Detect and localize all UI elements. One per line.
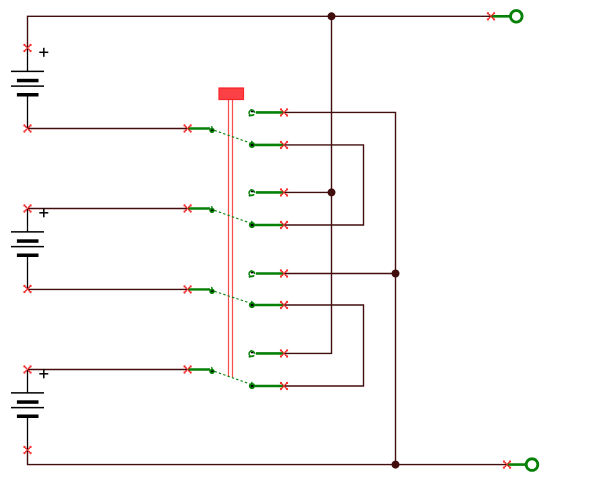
battery V3 pin marker minus terminal — [23, 446, 31, 454]
switch SW1 pole4 pin marker common — [183, 365, 191, 373]
switch SW1 pole2 pin marker common — [183, 204, 191, 212]
battery V1 pin marker minus terminal — [23, 124, 31, 132]
junction bottom rail and bus B — [392, 461, 400, 469]
switch SW1 pole4 lower throw contact — [249, 383, 255, 389]
wire battery V2 minus to switch pole3 common — [28, 288, 188, 290]
switch SW1 actuator handle — [219, 88, 244, 100]
switch SW1 pole4 common contact — [209, 369, 214, 374]
wire bus B from pole1 upper throw right then down x=395.5 to bottom rail — [284, 112, 396, 464]
switch SW1 pole3 lower throw lead — [255, 304, 284, 307]
junction bus A with pole2 upper throw wire — [328, 188, 336, 196]
switch SW1 pole1 common contact — [209, 128, 214, 133]
wire top rail from battery V1 plus terminal up and right to output terminal J1 — [28, 16, 492, 48]
switch SW1 pole1 pin marker common — [183, 124, 191, 132]
switch SW1 pole4 upper throw contact — [249, 351, 255, 357]
battery V1 — [11, 48, 48, 129]
switch SW1 pole1 moving arm — [215, 130, 250, 142]
wire battery V2 plus to switch pole2 common — [28, 208, 188, 210]
wire pole1 lower throw to pole2 lower throw via x=363.5 — [284, 145, 364, 225]
battery V3 — [11, 369, 48, 450]
switch SW1 pole3 pin marker upper throw — [280, 269, 288, 277]
switch SW1 actuator link bar right — [232, 100, 234, 378]
output terminal J2 — [526, 459, 538, 471]
switch SW1 pole1 pin marker lower throw — [280, 141, 288, 149]
switch SW1 pole3 common contact — [209, 289, 214, 294]
battery V2 pin marker minus terminal — [23, 285, 31, 293]
wire battery V3 plus to switch pole4 common — [28, 369, 188, 371]
switch SW1 pole1 — [183, 108, 288, 149]
switch SW1 pole3 lower throw contact — [249, 302, 255, 308]
switch SW1 pole3 upper throw lead — [256, 272, 284, 275]
battery V3 pin marker plus terminal — [23, 365, 31, 373]
switch SW1 pole2 pin marker upper throw — [280, 188, 288, 196]
switch SW1 pole2 pin marker lower throw — [280, 221, 288, 229]
switch SW1 pole2 common lead — [188, 207, 210, 209]
switch SW1 pole3 common lead — [188, 288, 210, 290]
switch SW1 actuator link bar left — [228, 100, 230, 378]
wire pole3 lower throw to pole4 lower throw via x=363.5 — [284, 305, 364, 386]
switch SW1 pole4 moving arm — [215, 371, 250, 383]
switch SW1 pole4 lower throw lead — [255, 385, 284, 388]
switch SW1 pole1 common lead — [188, 127, 210, 129]
switch SW1 pole4 pin marker lower throw — [280, 382, 288, 390]
wire bottom rail from battery V3 minus terminal to output terminal J2 — [28, 450, 508, 465]
switch SW1 pole4 upper throw lead — [256, 352, 284, 355]
wire bus A vertical x=331.5 from top rail down to pole4 upper throw — [284, 16, 332, 353]
switch SW1 pole3 moving arm — [215, 291, 250, 303]
switch SW1 pole2 lower throw lead — [255, 224, 284, 227]
switch SW1 pole2 moving arm — [215, 210, 250, 222]
switch SW1 pole3 upper throw contact — [249, 271, 255, 277]
wire battery V1 minus to switch pole1 common — [28, 128, 188, 130]
switch SW1 pole1 lower throw lead — [255, 144, 284, 147]
switch SW1 pole3 pin marker common — [183, 285, 191, 293]
wire pole2 upper throw to bus A — [284, 191, 332, 193]
switch SW1 pole1 lower throw contact — [249, 142, 255, 148]
switch SW1 pole4 — [183, 349, 288, 390]
switch SW1 pole1 upper throw lead — [256, 111, 284, 114]
battery V2 pin marker plus terminal — [23, 204, 31, 212]
junction bus B with pole3 upper throw wire — [392, 270, 400, 278]
junction top rail and bus A at (331.5,16.3) — [328, 12, 336, 20]
output terminal J2 lead — [507, 463, 526, 466]
switch SW1 pole2 common contact — [209, 208, 214, 213]
switch SW1 pole2 upper throw contact — [249, 190, 255, 196]
switch SW1 pole2 — [183, 188, 288, 229]
output terminal J1 pin marker — [487, 12, 495, 20]
wire pole3 upper throw to bus B — [284, 273, 396, 275]
battery V1 pin marker plus terminal — [23, 44, 31, 52]
switch SW1 pole3 pin marker lower throw — [280, 301, 288, 309]
battery V2 — [11, 208, 48, 289]
switch SW1 pole1 upper throw contact — [249, 110, 255, 116]
switch SW1 pole2 upper throw lead — [256, 191, 284, 194]
switch SW1 pole4 pin marker upper throw — [280, 349, 288, 357]
switch SW1 pole1 pin marker upper throw — [280, 108, 288, 116]
output terminal J1 — [511, 10, 523, 22]
output terminal J1 lead — [491, 15, 511, 18]
output terminal J2 pin marker — [503, 460, 511, 468]
switch SW1 pole4 common lead — [188, 368, 210, 370]
switch SW1 pole2 lower throw contact — [249, 222, 255, 228]
switch SW1 pole3 — [183, 269, 288, 309]
